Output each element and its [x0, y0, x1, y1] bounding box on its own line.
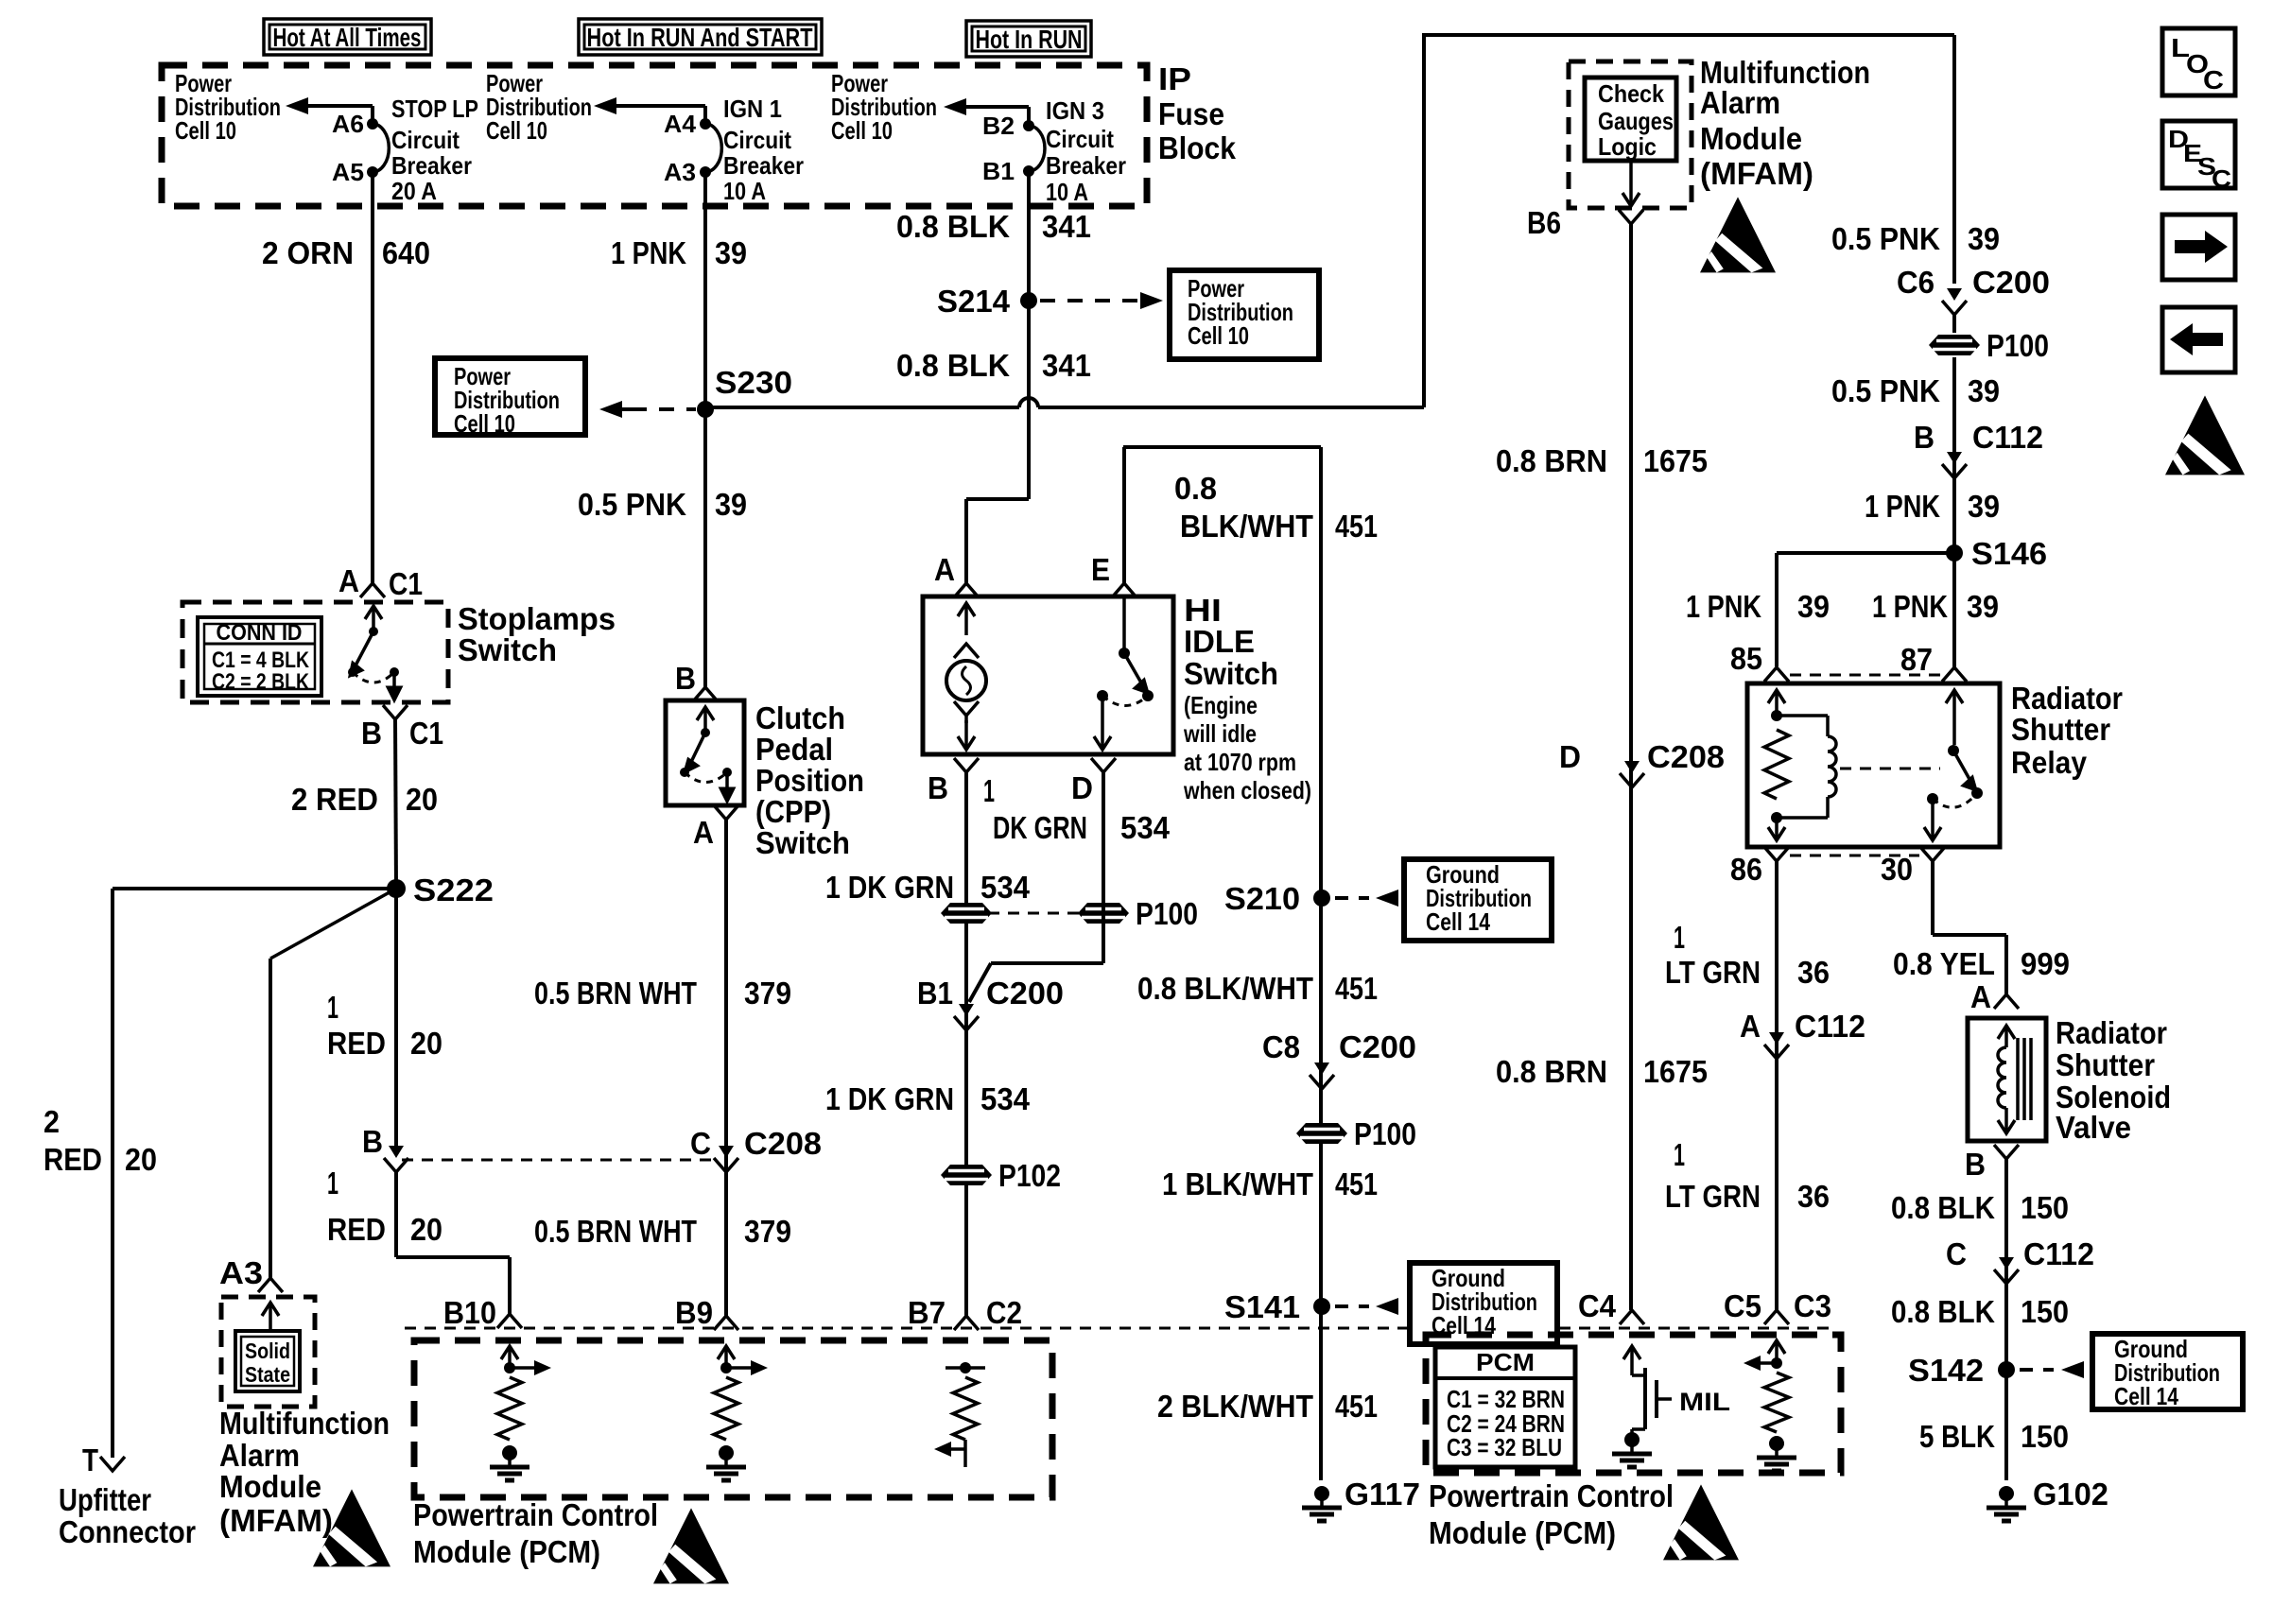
svg-text:C112: C112	[1972, 420, 2043, 455]
svg-text:Module (PCM): Module (PCM)	[413, 1534, 600, 1569]
svg-text:Circuit: Circuit	[1046, 125, 1114, 153]
svg-text:0.8 BRN: 0.8 BRN	[1496, 443, 1607, 478]
svg-text:C208: C208	[1647, 739, 1725, 774]
svg-text:will idle: will idle	[1183, 719, 1257, 748]
svg-text:BLK/WHT: BLK/WHT	[1180, 509, 1313, 544]
svg-text:S222: S222	[413, 872, 494, 907]
svg-text:D: D	[1559, 739, 1581, 774]
svg-text:Solid: Solid	[245, 1339, 290, 1363]
svg-text:30: 30	[1881, 852, 1913, 887]
svg-text:451: 451	[1335, 509, 1378, 544]
svg-text:20: 20	[125, 1142, 157, 1177]
svg-text:20: 20	[410, 1212, 442, 1247]
svg-text:2 RED: 2 RED	[291, 782, 378, 817]
svg-text:C2: C2	[986, 1295, 1022, 1330]
svg-text:534: 534	[980, 1081, 1031, 1116]
svg-text:S142: S142	[1908, 1353, 1984, 1388]
svg-text:C4: C4	[1578, 1288, 1617, 1323]
svg-text:A4: A4	[664, 110, 697, 138]
svg-text:B: B	[361, 716, 382, 751]
svg-text:A: A	[693, 815, 714, 850]
svg-text:1 PNK: 1 PNK	[1686, 589, 1761, 624]
svg-text:0.8 YEL: 0.8 YEL	[1893, 946, 1995, 981]
svg-text:Logic: Logic	[1598, 132, 1657, 161]
svg-text:Cell 14: Cell 14	[2114, 1382, 2178, 1410]
svg-text:2 BLK/WHT: 2 BLK/WHT	[1157, 1389, 1313, 1424]
svg-text:0.5 PNK: 0.5 PNK	[1831, 221, 1940, 256]
svg-text:Stoplamps: Stoplamps	[458, 601, 616, 636]
svg-text:C: C	[1946, 1236, 1967, 1271]
svg-text:B7: B7	[908, 1295, 946, 1330]
svg-text:Hot At All Times: Hot At All Times	[273, 23, 422, 52]
svg-text:(Engine: (Engine	[1184, 691, 1258, 719]
svg-text:0.8 BLK: 0.8 BLK	[1891, 1190, 1995, 1225]
svg-text:Shutter: Shutter	[2011, 712, 2110, 747]
svg-text:CONN ID: CONN ID	[217, 620, 303, 646]
svg-text:0.8 BRN: 0.8 BRN	[1496, 1054, 1607, 1089]
svg-text:IGN 3: IGN 3	[1046, 96, 1104, 125]
svg-text:A3: A3	[664, 158, 696, 186]
svg-text:A5: A5	[332, 158, 364, 186]
svg-text:39: 39	[1968, 221, 2000, 256]
svg-text:A3: A3	[219, 1255, 263, 1290]
svg-text:C5: C5	[1724, 1288, 1761, 1323]
svg-text:D: D	[1071, 770, 1093, 805]
svg-text:Relay: Relay	[2011, 745, 2088, 780]
svg-text:20: 20	[410, 1026, 442, 1061]
svg-text:39: 39	[1967, 589, 1999, 624]
svg-text:0.5 PNK: 0.5 PNK	[1831, 373, 1940, 408]
svg-text:C: C	[2203, 65, 2224, 95]
svg-text:534: 534	[1120, 810, 1171, 845]
svg-text:C: C	[690, 1126, 711, 1161]
svg-text:Circuit: Circuit	[391, 126, 460, 154]
svg-text:1 BLK/WHT: 1 BLK/WHT	[1162, 1166, 1313, 1201]
svg-text:39: 39	[1968, 489, 2000, 524]
svg-text:Switch: Switch	[1184, 656, 1278, 691]
svg-text:C112: C112	[1795, 1009, 1865, 1044]
svg-text:20: 20	[406, 782, 438, 817]
svg-text:Block: Block	[1158, 130, 1237, 165]
svg-text:G117: G117	[1345, 1477, 1420, 1512]
svg-text:B: B	[1914, 420, 1935, 455]
svg-text:Breaker: Breaker	[723, 151, 804, 180]
svg-text:A: A	[1970, 979, 1991, 1014]
svg-text:B: B	[362, 1124, 383, 1159]
svg-text:Cell 10: Cell 10	[1188, 321, 1249, 350]
svg-text:39: 39	[715, 487, 747, 522]
svg-text:State: State	[245, 1362, 290, 1387]
svg-text:PCM: PCM	[1476, 1348, 1535, 1376]
svg-text:(CPP): (CPP)	[755, 794, 831, 829]
svg-text:Switch: Switch	[458, 632, 557, 667]
svg-text:0.8 BLK: 0.8 BLK	[1891, 1294, 1995, 1329]
svg-text:Hot In RUN: Hot In RUN	[976, 25, 1083, 54]
svg-text:C3: C3	[1794, 1288, 1831, 1323]
svg-text:20 A: 20 A	[391, 177, 437, 205]
svg-text:0.8: 0.8	[1174, 471, 1217, 506]
svg-text:B1: B1	[982, 157, 1015, 185]
svg-text:S230: S230	[715, 365, 792, 400]
svg-text:Cell 10: Cell 10	[454, 409, 515, 438]
svg-text:0.5 PNK: 0.5 PNK	[578, 487, 686, 522]
svg-text:IGN 1: IGN 1	[723, 95, 782, 123]
svg-text:1 PNK: 1 PNK	[1872, 589, 1948, 624]
svg-text:A: A	[934, 552, 955, 587]
svg-text:Cell 10: Cell 10	[486, 116, 547, 145]
svg-text:Cell 10: Cell 10	[175, 116, 236, 145]
svg-text:Multifunction: Multifunction	[219, 1406, 390, 1441]
svg-text:Cell 14: Cell 14	[1426, 907, 1490, 936]
svg-text:E: E	[1091, 552, 1110, 587]
svg-text:85: 85	[1730, 641, 1762, 676]
svg-text:Module: Module	[1700, 121, 1802, 156]
svg-text:(MFAM): (MFAM)	[219, 1503, 333, 1538]
svg-text:C200: C200	[1972, 265, 2050, 300]
svg-text:10 A: 10 A	[1046, 178, 1088, 206]
svg-text:1 PNK: 1 PNK	[1865, 489, 1940, 524]
svg-text:1: 1	[1674, 1137, 1685, 1172]
svg-text:150: 150	[2021, 1419, 2069, 1454]
svg-text:2 ORN: 2 ORN	[262, 235, 354, 270]
svg-text:LT GRN: LT GRN	[1665, 1179, 1761, 1214]
svg-text:Powertrain Control: Powertrain Control	[1429, 1478, 1674, 1513]
svg-text:P102: P102	[998, 1158, 1061, 1193]
svg-text:G102: G102	[2033, 1477, 2108, 1512]
svg-text:A: A	[338, 563, 359, 598]
svg-text:Gauges: Gauges	[1598, 107, 1674, 135]
svg-text:Circuit: Circuit	[723, 126, 791, 154]
svg-text:Powertrain Control: Powertrain Control	[413, 1497, 658, 1532]
svg-text:Hot In RUN And START: Hot In RUN And START	[587, 23, 813, 52]
svg-text:1: 1	[327, 990, 338, 1025]
svg-text:Breaker: Breaker	[391, 151, 472, 180]
svg-text:150: 150	[2021, 1190, 2069, 1225]
svg-text:B1: B1	[917, 976, 953, 1011]
svg-text:Clutch: Clutch	[755, 700, 845, 735]
svg-text:Cell 10: Cell 10	[831, 116, 893, 145]
svg-text:Fuse: Fuse	[1158, 96, 1224, 131]
svg-text:341: 341	[1042, 209, 1091, 244]
svg-text:C: C	[2212, 164, 2231, 193]
svg-text:Pedal: Pedal	[755, 732, 833, 767]
svg-text:C3 = 32 BLU: C3 = 32 BLU	[1447, 1433, 1562, 1461]
svg-text:0.5 BRN WHT: 0.5 BRN WHT	[534, 1214, 697, 1249]
svg-text:Connector: Connector	[59, 1514, 196, 1549]
svg-text:379: 379	[744, 976, 791, 1011]
svg-text:1 DK GRN: 1 DK GRN	[825, 1081, 954, 1116]
svg-text:2: 2	[43, 1104, 60, 1139]
svg-text:Valve: Valve	[2056, 1110, 2131, 1145]
svg-text:B6: B6	[1527, 205, 1561, 240]
svg-text:Position: Position	[755, 763, 864, 798]
svg-text:HI: HI	[1184, 593, 1222, 628]
svg-text:Module (PCM): Module (PCM)	[1429, 1515, 1616, 1550]
svg-text:341: 341	[1042, 348, 1091, 383]
svg-text:86: 86	[1730, 852, 1762, 887]
svg-text:451: 451	[1335, 1166, 1378, 1201]
svg-text:36: 36	[1797, 955, 1830, 990]
svg-text:1 PNK: 1 PNK	[611, 235, 686, 270]
svg-text:534: 534	[980, 870, 1031, 905]
svg-text:0.8 BLK: 0.8 BLK	[896, 348, 1010, 383]
svg-text:S141: S141	[1224, 1289, 1300, 1324]
svg-text:C208: C208	[744, 1126, 822, 1161]
svg-text:P100: P100	[1987, 328, 2049, 363]
svg-text:C6: C6	[1897, 265, 1935, 300]
svg-text:RED: RED	[327, 1026, 386, 1061]
svg-text:RED: RED	[43, 1142, 102, 1177]
svg-text:LT GRN: LT GRN	[1665, 955, 1761, 990]
svg-text:IP: IP	[1158, 61, 1191, 96]
svg-text:B: B	[928, 770, 948, 805]
svg-text:10 A: 10 A	[723, 177, 766, 205]
svg-text:39: 39	[1968, 373, 2000, 408]
svg-text:Radiator: Radiator	[2056, 1015, 2167, 1050]
svg-text:RED: RED	[327, 1212, 386, 1247]
svg-text:379: 379	[744, 1214, 791, 1249]
svg-text:999: 999	[2021, 946, 2070, 981]
svg-text:1675: 1675	[1643, 1054, 1708, 1089]
svg-text:at 1070 rpm: at 1070 rpm	[1184, 748, 1296, 776]
svg-text:640: 640	[382, 235, 430, 270]
svg-text:Alarm: Alarm	[219, 1438, 300, 1473]
svg-text:0.5 BRN WHT: 0.5 BRN WHT	[534, 976, 697, 1011]
svg-text:5 BLK: 5 BLK	[1919, 1419, 1995, 1454]
svg-text:1: 1	[327, 1166, 338, 1201]
svg-text:when closed): when closed)	[1183, 776, 1311, 804]
svg-text:C1: C1	[409, 716, 443, 751]
svg-text:T: T	[82, 1443, 98, 1477]
svg-text:1: 1	[983, 773, 995, 808]
svg-text:S214: S214	[937, 284, 1011, 319]
svg-text:Shutter: Shutter	[2056, 1047, 2155, 1082]
svg-text:150: 150	[2021, 1294, 2069, 1329]
svg-text:1675: 1675	[1643, 443, 1708, 478]
svg-text:C200: C200	[1339, 1029, 1416, 1064]
svg-text:Check: Check	[1598, 79, 1664, 108]
svg-text:A6: A6	[332, 110, 364, 138]
svg-text:IDLE: IDLE	[1184, 624, 1255, 659]
svg-text:B2: B2	[982, 112, 1015, 140]
svg-text:Upfitter: Upfitter	[59, 1482, 151, 1517]
svg-text:C8: C8	[1262, 1029, 1300, 1064]
svg-text:Breaker: Breaker	[1046, 151, 1126, 180]
svg-text:87: 87	[1900, 642, 1933, 677]
svg-text:A: A	[1740, 1009, 1761, 1044]
svg-text:1 DK GRN: 1 DK GRN	[825, 870, 954, 905]
svg-text:39: 39	[1797, 589, 1830, 624]
svg-text:B9: B9	[675, 1295, 713, 1330]
svg-text:Switch: Switch	[755, 825, 850, 860]
svg-text:B: B	[675, 661, 696, 696]
svg-text:S210: S210	[1224, 881, 1300, 916]
svg-text:C200: C200	[986, 976, 1064, 1011]
svg-text:C2 = 2 BLK: C2 = 2 BLK	[212, 669, 310, 695]
svg-text:P100: P100	[1354, 1116, 1416, 1151]
svg-text:(MFAM): (MFAM)	[1700, 156, 1813, 191]
svg-text:451: 451	[1335, 1389, 1378, 1424]
svg-text:DK GRN: DK GRN	[993, 810, 1087, 845]
svg-text:1: 1	[1674, 920, 1685, 955]
svg-text:0.8 BLK/WHT: 0.8 BLK/WHT	[1137, 971, 1313, 1006]
svg-text:MIL: MIL	[1679, 1388, 1730, 1416]
svg-text:STOP LP: STOP LP	[391, 95, 478, 123]
svg-text:C1: C1	[389, 566, 423, 601]
svg-text:B: B	[1965, 1147, 1986, 1182]
svg-text:36: 36	[1797, 1179, 1830, 1214]
svg-text:B10: B10	[443, 1295, 496, 1330]
svg-text:0.8 BLK: 0.8 BLK	[896, 209, 1010, 244]
svg-text:Radiator: Radiator	[2011, 681, 2123, 716]
svg-text:C112: C112	[2023, 1236, 2094, 1271]
svg-text:Alarm: Alarm	[1700, 85, 1780, 120]
svg-text:P100: P100	[1136, 896, 1198, 931]
svg-text:S146: S146	[1971, 536, 2047, 571]
svg-text:Module: Module	[219, 1469, 321, 1504]
svg-text:451: 451	[1335, 971, 1378, 1006]
svg-text:39: 39	[715, 235, 747, 270]
